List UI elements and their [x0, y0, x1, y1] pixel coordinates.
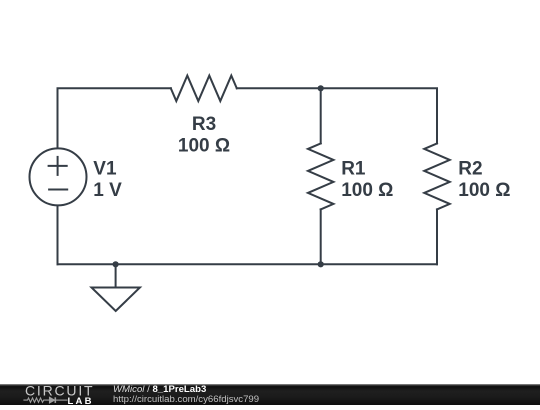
wire from R1 bottom lead to bottom net — [320, 209, 322, 264]
svg-text:100 Ω: 100 Ω — [178, 136, 230, 157]
svg-text:LAB: LAB — [68, 396, 94, 405]
ground — [92, 264, 140, 311]
wire from R2 bottom lead to bottom net — [436, 209, 438, 264]
wire from node A to R1 top lead — [320, 88, 322, 143]
junction dot at ground connection — [113, 261, 119, 267]
wire from V1 positive terminal up and right to R3 left lead — [58, 88, 171, 147]
svg-text:1 V: 1 V — [93, 180, 122, 201]
logo resistor squiggle and diode — [23, 397, 67, 403]
svg-text:V1: V1 — [93, 158, 117, 179]
node A junction dot — [318, 85, 324, 91]
svg-text:R1: R1 — [341, 158, 366, 179]
svg-text:R2: R2 — [458, 158, 482, 179]
junction dot at R1 bottom on bottom net — [318, 261, 324, 267]
svg-text:100 Ω: 100 Ω — [458, 180, 510, 201]
resistor R2 — [424, 143, 450, 209]
wire bottom net from V1 to R2 — [58, 263, 438, 265]
wire from V1 negative terminal down to bottom net — [57, 206, 59, 264]
wire from node A right and down to R2 top lead — [321, 88, 437, 143]
svg-text:R3: R3 — [192, 114, 216, 135]
footer attribution text — [113, 385, 259, 404]
resistor R3 — [171, 76, 237, 102]
CircuitLab logo — [0, 384, 110, 405]
resistor R1 — [308, 143, 334, 209]
footer bar — [0, 384, 540, 405]
voltage source V1 — [30, 148, 87, 205]
wire from R3 right lead to node A — [237, 87, 321, 89]
svg-text:100 Ω: 100 Ω — [341, 180, 393, 201]
